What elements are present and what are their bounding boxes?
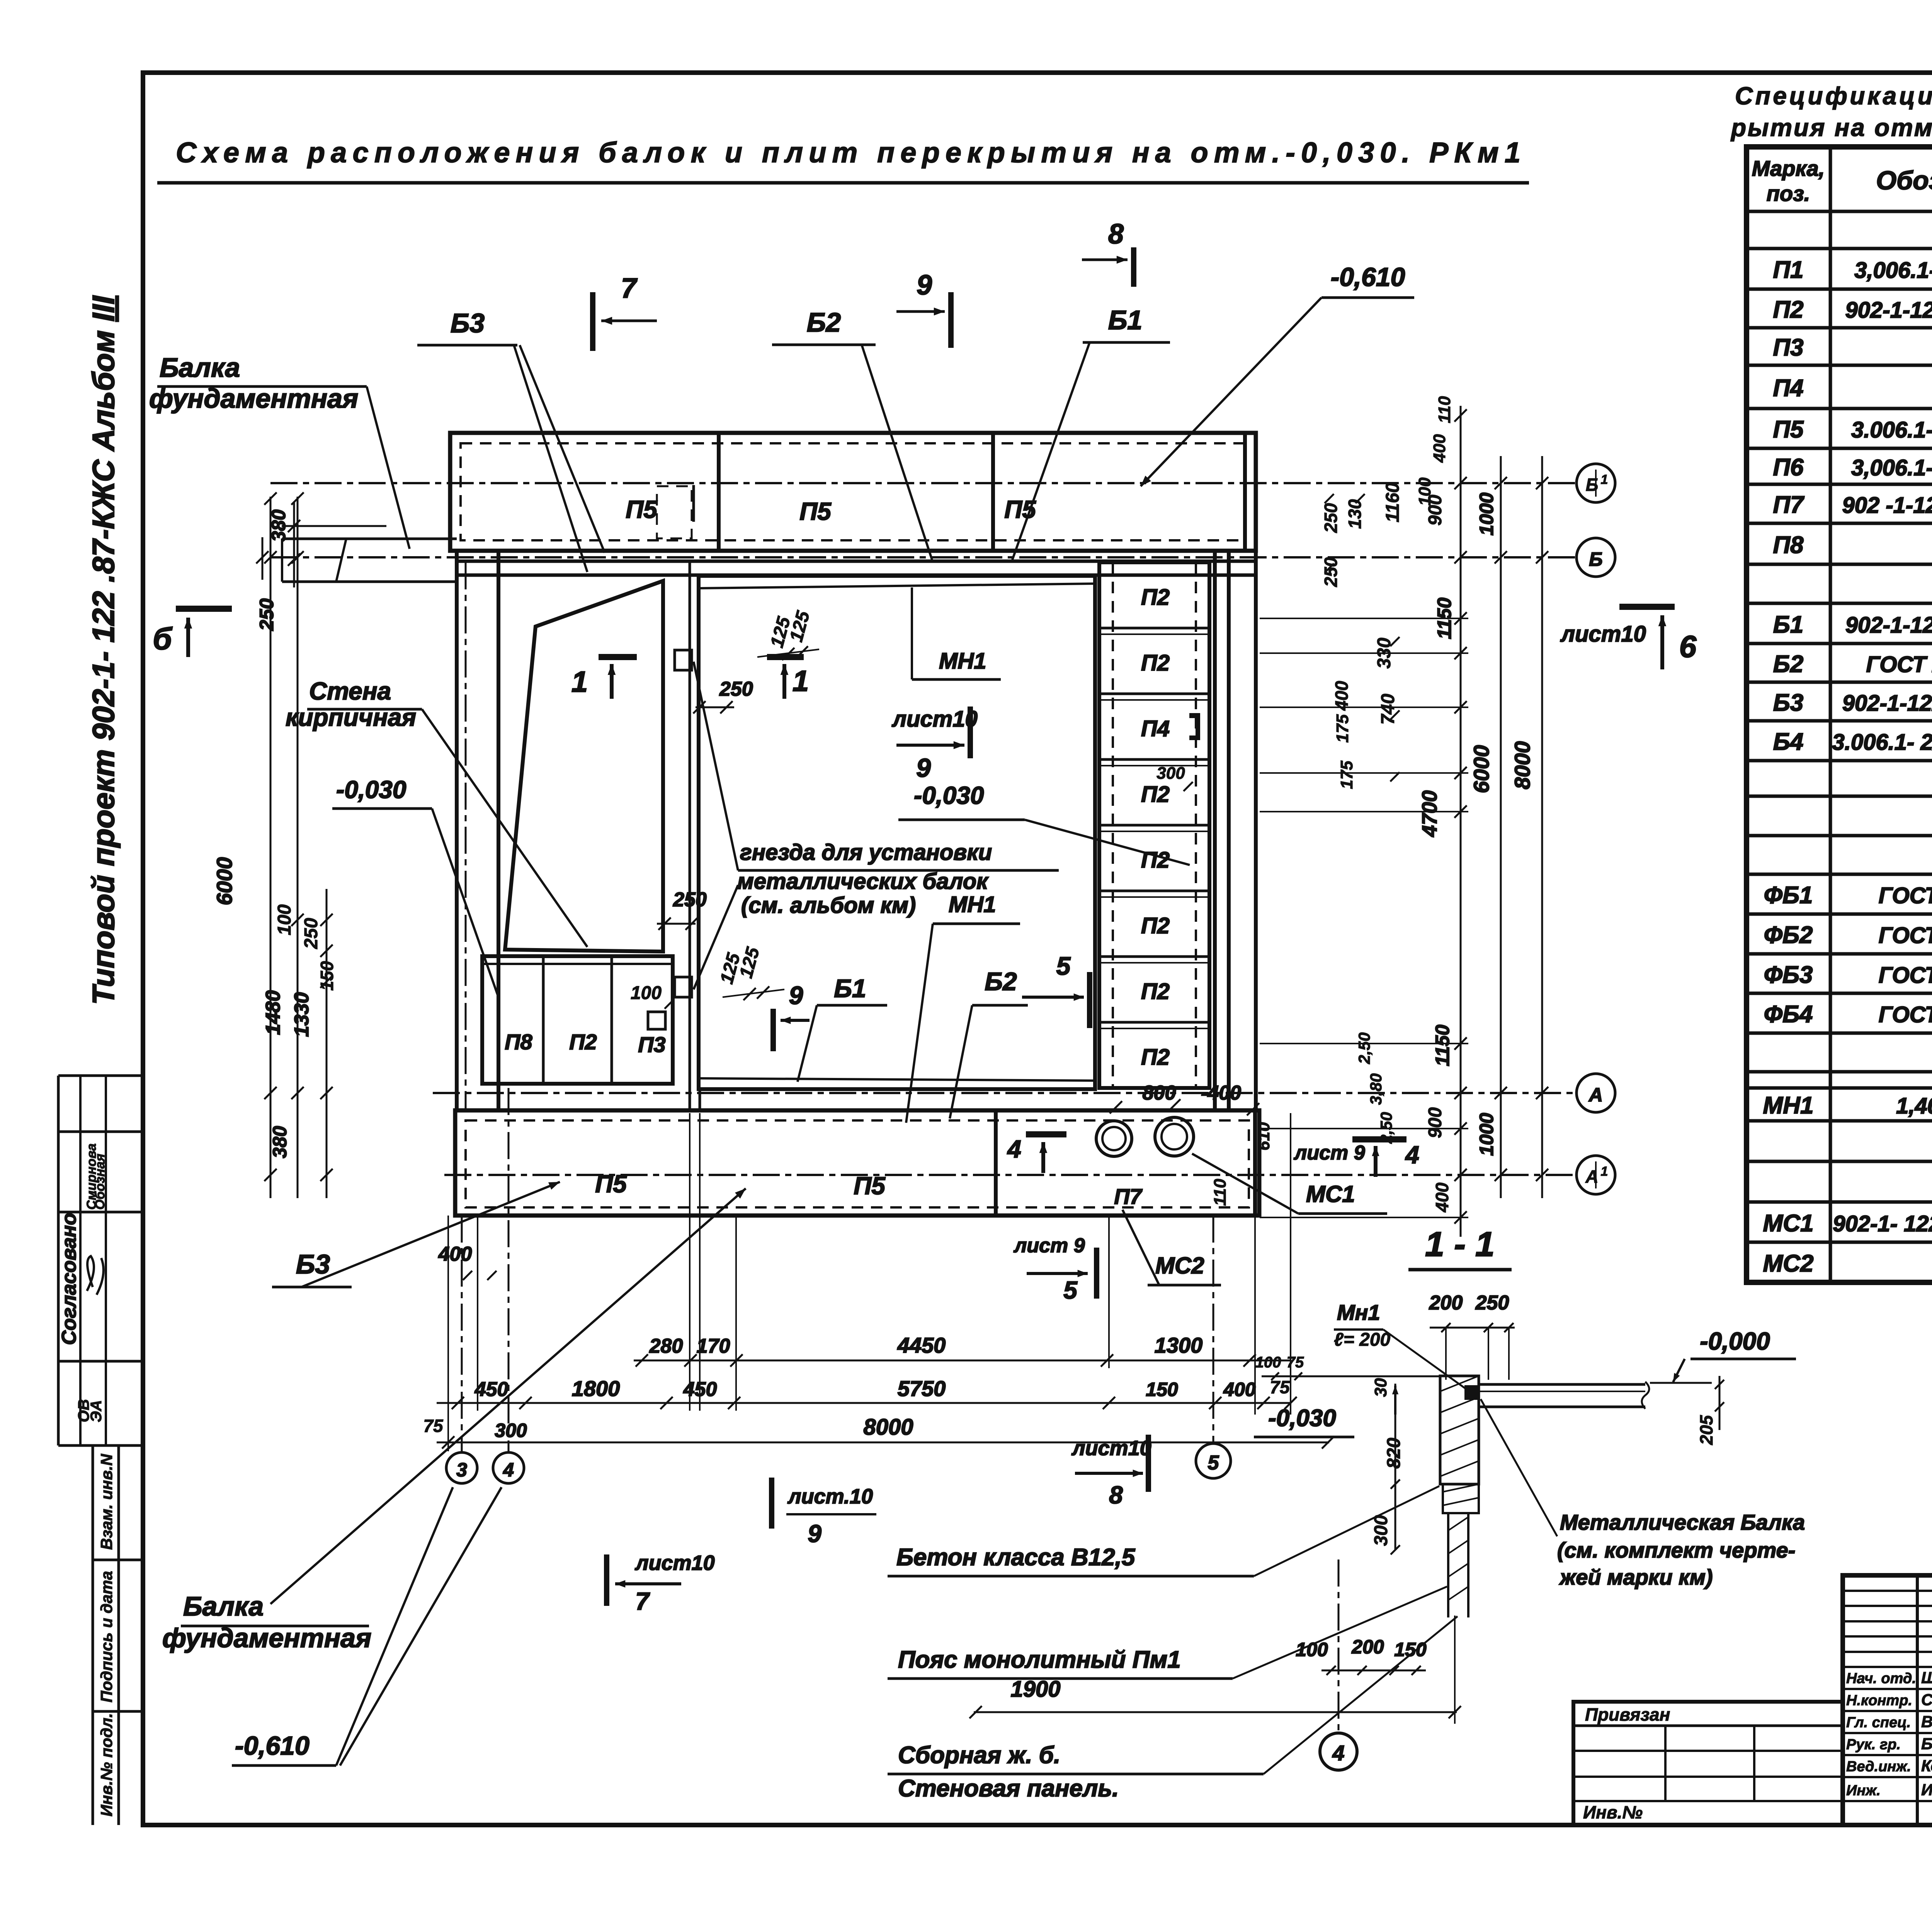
left margin block Согласовано	[58, 1074, 144, 1077]
svg-text:П4: П4	[1141, 716, 1170, 741]
svg-text:П2: П2	[1141, 848, 1170, 873]
svg-text:-0,000: -0,000	[1700, 1327, 1770, 1355]
small cross ticks right upper	[1325, 494, 1334, 503]
svg-text:-0,030: -0,030	[336, 776, 406, 804]
svg-text:ФБ3: ФБ3	[1764, 962, 1813, 988]
svg-text:П5: П5	[799, 497, 832, 525]
svg-text:5: 5	[1056, 952, 1071, 980]
svg-text:250: 250	[673, 889, 707, 911]
МС pipe circles	[1096, 1121, 1132, 1156]
svg-text:380: 380	[269, 1126, 291, 1158]
svg-text:Металлическая Балка: Металлическая Балка	[1560, 1510, 1805, 1534]
dim row A 280 170 4450 1300	[634, 1360, 1291, 1362]
axis 3 dash-dot through plan	[465, 562, 467, 1109]
svg-text:175: 175	[1333, 714, 1352, 743]
svg-text:1: 1	[1601, 1164, 1608, 1179]
svg-text:1150: 1150	[1434, 598, 1455, 639]
svg-text:170: 170	[697, 1335, 730, 1357]
svg-text:Бетон класса В12,5: Бетон класса В12,5	[896, 1544, 1136, 1571]
П5 bottom band inner dashed	[466, 1120, 1249, 1207]
svg-text:205: 205	[1696, 1415, 1716, 1445]
svg-text:П2: П2	[1141, 979, 1170, 1004]
svg-text:4: 4	[1007, 1135, 1021, 1163]
axis circle 3	[446, 1452, 477, 1483]
svg-text:1330: 1330	[291, 992, 313, 1037]
svg-text:4: 4	[503, 1459, 514, 1481]
svg-text:МС1: МС1	[1306, 1181, 1355, 1207]
svg-text:8000: 8000	[863, 1415, 913, 1440]
svg-text:фундаментная: фундаментная	[149, 383, 358, 414]
svg-text:300: 300	[495, 1420, 527, 1441]
svg-text:380: 380	[268, 509, 289, 542]
svg-text:МН1: МН1	[949, 892, 996, 917]
svg-text:гнезда для установки: гнезда для установки	[740, 840, 992, 865]
svg-text:Б1: Б1	[834, 974, 866, 1003]
svg-text:1900: 1900	[1010, 1677, 1060, 1702]
svg-text:Подпись и дата: Подпись и дата	[97, 1571, 116, 1702]
svg-text:2,50: 2,50	[1355, 1032, 1373, 1064]
svg-text:Обозначение: Обозначение	[1876, 166, 1932, 195]
svg-text:5: 5	[1063, 1276, 1078, 1304]
svg-text:лист10: лист10	[1071, 1437, 1151, 1460]
svg-text:Типовой проект 902-1- 122: Типовой проект 902-1- 122 .87-КЖС Альбом…	[86, 295, 121, 1005]
svg-text:Инж.: Инж.	[1846, 1783, 1881, 1799]
bottom band divider	[994, 1110, 998, 1216]
svg-text:поз.: поз.	[1767, 181, 1810, 206]
left vertical dim lines	[270, 497, 272, 1198]
svg-text:400: 400	[1430, 434, 1449, 463]
svg-text:лист 9: лист 9	[1293, 1142, 1365, 1164]
svg-text:5: 5	[1208, 1452, 1219, 1474]
svg-text:75: 75	[423, 1416, 444, 1436]
svg-text:250: 250	[301, 918, 321, 949]
axis 4 dash line in detail	[1338, 1559, 1340, 1731]
svg-text:лист10: лист10	[634, 1551, 715, 1575]
svg-text:ЭА: ЭА	[88, 1400, 105, 1422]
svg-text:жей марки км): жей марки км)	[1559, 1565, 1713, 1589]
svg-text:740: 740	[1378, 694, 1398, 725]
svg-text:П3: П3	[638, 1032, 665, 1057]
svg-text:900: 900	[1425, 1107, 1446, 1138]
svg-text:(см. комплект черте-: (см. комплект черте-	[1557, 1538, 1795, 1562]
svg-text:Балка: Балка	[160, 352, 240, 383]
svg-text:ФБ1: ФБ1	[1764, 882, 1813, 909]
svg-text:3,80: 3,80	[1367, 1073, 1385, 1105]
svg-text:Вед.инж.: Вед.инж.	[1846, 1759, 1911, 1775]
axis circle А/1	[1577, 1156, 1615, 1194]
svg-text:7: 7	[635, 1587, 650, 1615]
svg-text:3.006.1- 2/82.2 - 2- 09 СБ: 3.006.1- 2/82.2 - 2- 09 СБ	[1832, 730, 1932, 755]
svg-text:-0,030: -0,030	[914, 781, 984, 809]
svg-text:Б2: Б2	[985, 967, 1017, 996]
svg-text:9: 9	[789, 981, 803, 1010]
svg-text:100: 100	[631, 983, 662, 1003]
svg-text:Привязан: Привязан	[1585, 1704, 1670, 1725]
room bottom beam double line	[699, 1078, 1095, 1081]
section mark 8 top	[1131, 247, 1136, 287]
svg-text:75: 75	[1270, 1377, 1290, 1397]
svg-text:8: 8	[1109, 1481, 1123, 1509]
axis circle 4	[493, 1452, 524, 1483]
svg-text:Б1: Б1	[1773, 611, 1803, 638]
svg-text:П7: П7	[1773, 492, 1804, 518]
svg-text:150: 150	[1146, 1379, 1178, 1400]
svg-text:280: 280	[649, 1335, 683, 1357]
svg-text:рытия на отм. – 0,030 РКм1 и: рытия на отм. – 0,030 РКм1 и на отм. 1,5…	[1730, 114, 1932, 141]
svg-text:330: 330	[1374, 638, 1395, 669]
level line left of wall	[1262, 1376, 1440, 1377]
svg-text:110: 110	[1211, 1178, 1230, 1206]
svg-text:ГОСТ 13579 -78: ГОСТ 13579 -78	[1879, 963, 1932, 988]
svg-text:150: 150	[317, 961, 337, 991]
svg-text:902-1-122. 87- КЖИ-Б3: 902-1-122. 87- КЖИ-Б3	[1842, 691, 1932, 716]
svg-text:П2: П2	[1141, 782, 1170, 807]
svg-text:-0,610: -0,610	[1331, 262, 1405, 292]
svg-text:900: 900	[1425, 495, 1446, 526]
svg-text:лист.10: лист.10	[787, 1485, 873, 1508]
svg-text:П2: П2	[569, 1030, 597, 1054]
svg-text:300: 300	[1371, 1515, 1391, 1546]
П5 top band inner dashed	[461, 443, 1245, 540]
svg-text:1150: 1150	[1432, 1025, 1453, 1066]
beam axis line Б/1 horizontal	[270, 482, 1576, 484]
svg-text:П5: П5	[1773, 416, 1804, 443]
svg-text:3,006.1- 2/82.1- 2- 1.0: 3,006.1- 2/82.1- 2- 1.0	[1851, 455, 1932, 480]
svg-text:Сборная ж. б.: Сборная ж. б.	[898, 1742, 1060, 1769]
svg-text:ФБ2: ФБ2	[1764, 922, 1813, 948]
svg-text:3.006.1- 2/82.1- 2- 2,0: 3.006.1- 2/82.1- 2- 2,0	[1851, 417, 1932, 443]
axis line А horizontal	[433, 1092, 1576, 1094]
svg-text:6: 6	[1679, 629, 1697, 664]
svg-text:П2: П2	[1141, 1045, 1170, 1070]
axis circle Б	[1577, 538, 1615, 577]
svg-text:лист10: лист10	[891, 707, 978, 732]
svg-text:250: 250	[1321, 503, 1341, 533]
svg-text:Б3: Б3	[1773, 690, 1803, 716]
svg-text:4: 4	[1332, 1741, 1344, 1765]
section mark б left	[176, 606, 232, 612]
band right outer continuation	[1254, 551, 1258, 1110]
svg-text:902 -1-122. 87-КЖИ-П7: 902 -1-122. 87-КЖИ-П7	[1842, 493, 1932, 518]
svg-text:400: 400	[1223, 1379, 1256, 1400]
svg-text:ГОСТ 13579 -78: ГОСТ 13579 -78	[1879, 1002, 1932, 1027]
svg-text:8000: 8000	[1510, 741, 1534, 790]
svg-text:4700: 4700	[1418, 790, 1441, 837]
right dim extension lines	[1260, 618, 1468, 619]
svg-text:Власенко: Власенко	[1921, 1713, 1932, 1731]
machine room rectangle	[699, 576, 1095, 1089]
section mark 1 left with flag	[599, 654, 637, 660]
лист10 9 mark bottom left	[769, 1478, 774, 1529]
svg-text:МН1: МН1	[939, 649, 986, 674]
svg-text:П5: П5	[595, 1170, 627, 1198]
svg-text:П8: П8	[1773, 532, 1804, 558]
лист10 7 mark bottom left	[604, 1554, 609, 1606]
svg-text:100: 100	[274, 904, 295, 935]
svg-text:ГОСТ 24893.0 - 81: ГОСТ 24893.0 - 81	[1866, 652, 1932, 677]
svg-text:200: 200	[1429, 1292, 1463, 1314]
svg-text:Н.контр.: Н.контр.	[1846, 1692, 1912, 1709]
svg-text:-400: -400	[1201, 1082, 1241, 1104]
svg-text:лист10: лист10	[1560, 621, 1646, 647]
svg-text:110: 110	[1435, 396, 1454, 423]
svg-text:Инв.№: Инв.№	[1583, 1802, 1643, 1822]
П8 П2 П3 box lower left	[482, 956, 673, 1084]
svg-text:6000: 6000	[1469, 745, 1493, 793]
svg-text:Нач. отд.: Нач. отд.	[1846, 1670, 1916, 1687]
svg-text:1 - 1: 1 - 1	[1425, 1225, 1495, 1264]
svg-text:820: 820	[1384, 1438, 1404, 1469]
svg-text:П3: П3	[1773, 334, 1803, 361]
svg-text:1: 1	[1601, 472, 1608, 487]
svg-text:902-1-122.87- КЖИ-Б1: 902-1-122.87- КЖИ-Б1	[1845, 613, 1932, 638]
svg-text:1000: 1000	[1476, 1113, 1497, 1156]
svg-text:Марка,: Марка,	[1752, 156, 1825, 180]
svg-text:П7: П7	[1114, 1184, 1143, 1209]
svg-text:450: 450	[683, 1378, 717, 1401]
left margin strip Взам.инв.N / Подпись и дата / Инв.N подл.	[93, 1444, 144, 1447]
svg-text:Рук. гр.: Рук. гр.	[1846, 1737, 1901, 1753]
svg-text:П2: П2	[1141, 650, 1170, 676]
svg-text:130: 130	[1345, 499, 1365, 529]
section mark 1 right with flag	[767, 654, 804, 660]
svg-text:Б: Б	[1589, 548, 1602, 570]
svg-text:лист 9: лист 9	[1013, 1234, 1085, 1257]
svg-text:П5: П5	[854, 1172, 886, 1200]
Привязан box	[1573, 1702, 1843, 1825]
section mark 4 in band	[1026, 1131, 1066, 1137]
svg-text:П4: П4	[1773, 375, 1803, 402]
П5 top band outer	[450, 433, 1256, 551]
svg-text:Борисенко: Борисенко	[1921, 1735, 1932, 1753]
dim 300	[1395, 1484, 1396, 1550]
vertical extension lines below plan	[461, 1216, 463, 1451]
svg-text:П5: П5	[1004, 495, 1036, 523]
specification table grid	[1747, 147, 1932, 1282]
svg-text:б: б	[153, 621, 173, 656]
axis circle 4 detail	[1320, 1733, 1357, 1770]
svg-text:3,006.1-2/82.1 - 2-1,0: 3,006.1-2/82.1 - 2-1,0	[1854, 258, 1932, 283]
dim 820	[1395, 1384, 1396, 1484]
svg-text:П2: П2	[1773, 296, 1803, 323]
svg-text:3: 3	[456, 1459, 467, 1481]
svg-text:Стена: Стена	[309, 677, 391, 705]
svg-text:П6: П6	[1773, 454, 1804, 481]
main right wall	[1213, 551, 1217, 1110]
svg-text:Козина: Козина	[1921, 1757, 1932, 1775]
main left wall	[455, 551, 459, 1110]
svg-text:7: 7	[621, 273, 638, 304]
svg-text:Б4: Б4	[1773, 729, 1803, 755]
П2 plate stack right side	[1099, 562, 1209, 1088]
svg-text:250: 250	[1321, 557, 1341, 587]
svg-text:П1: П1	[1773, 257, 1803, 283]
svg-text:75: 75	[1287, 1354, 1304, 1371]
svg-text:(см. альбом км): (см. альбом км)	[741, 893, 916, 918]
лист10 6 mark right	[1619, 604, 1675, 610]
svg-text:фундаментная: фундаментная	[162, 1623, 371, 1653]
П5 bottom band outer	[455, 1110, 1259, 1216]
svg-text:30: 30	[1371, 1378, 1390, 1397]
svg-text:2,50: 2,50	[1377, 1112, 1395, 1144]
svg-text:ГОСТ 13579 -78: ГОСТ 13579 -78	[1879, 923, 1932, 948]
svg-text:Б1: Б1	[1108, 305, 1143, 335]
svg-text:250: 250	[256, 598, 277, 631]
svg-text:1800: 1800	[572, 1376, 620, 1401]
axis circle 5	[1196, 1444, 1231, 1478]
svg-text:Шейко: Шейко	[1921, 1668, 1932, 1687]
svg-text:Иволженко: Иволженко	[1921, 1781, 1932, 1799]
room top beam double line	[699, 584, 1095, 588]
svg-text:кирпичная: кирпичная	[286, 703, 416, 731]
svg-text:300: 300	[1156, 764, 1185, 783]
floor slab in section	[1479, 1383, 1645, 1386]
dim row C 8000	[437, 1442, 1329, 1444]
svg-text:1: 1	[793, 665, 809, 698]
svg-text:800: 800	[1143, 1082, 1176, 1104]
brick wall parallelogram	[505, 581, 663, 952]
hatched brick wall section	[1440, 1376, 1479, 1484]
svg-text:Б2: Б2	[807, 307, 841, 337]
svg-text:Б3: Б3	[451, 308, 485, 338]
svg-text:9: 9	[808, 1520, 821, 1548]
wall line below top band	[456, 560, 1256, 563]
svg-text:металлических балок: металлических балок	[737, 869, 989, 894]
svg-text:150: 150	[1394, 1639, 1427, 1660]
svg-text:П2: П2	[1141, 585, 1170, 610]
svg-text:9: 9	[916, 753, 931, 783]
svg-text:Спецификация к схемам располож: Спецификация к схемам расположения балок…	[1735, 82, 1932, 110]
small dashed box in first П5 cell	[657, 486, 692, 538]
embedded item МН1 black square	[1464, 1385, 1480, 1400]
svg-text:П8: П8	[505, 1030, 532, 1054]
svg-text:100: 100	[1255, 1354, 1281, 1371]
svg-text:Балка: Балка	[183, 1591, 264, 1621]
svg-text:Мн1: Мн1	[1337, 1300, 1380, 1325]
title block bottom right	[1843, 1575, 1932, 1825]
svg-text:1,400-15. 81.: 1,400-15. 81.	[1896, 1093, 1932, 1119]
svg-text:1160: 1160	[1383, 482, 1403, 523]
axis line А/1 horizontal	[444, 1174, 1576, 1176]
svg-text:902-1-122. 87-КЖИ-П2: 902-1-122. 87-КЖИ-П2	[1845, 298, 1932, 323]
svg-text:Б2: Б2	[1773, 651, 1803, 678]
wall panel below	[1447, 1513, 1449, 1617]
svg-text:8: 8	[1108, 219, 1124, 250]
svg-text:610: 610	[1254, 1122, 1273, 1151]
svg-text:400: 400	[1332, 681, 1352, 711]
axis circle А	[1577, 1074, 1615, 1112]
svg-text:400: 400	[1432, 1182, 1452, 1212]
П5 band dividers	[717, 433, 721, 551]
svg-text:Сокольская: Сокольская	[1921, 1691, 1932, 1709]
svg-text:Обозная: Обозная	[93, 1154, 107, 1210]
svg-text:250: 250	[719, 678, 753, 700]
svg-text:П5: П5	[626, 495, 658, 523]
svg-text:Пояс монолитный Пм1: Пояс монолитный Пм1	[898, 1646, 1181, 1673]
svg-text:А: А	[1588, 1084, 1603, 1106]
svg-text:9: 9	[917, 270, 932, 301]
svg-text:ℓ= 200: ℓ= 200	[1334, 1330, 1391, 1350]
svg-text:МС1: МС1	[1763, 1210, 1814, 1237]
right vertical dim lines	[1460, 406, 1462, 1237]
svg-text:Гл. спец.: Гл. спец.	[1846, 1714, 1911, 1731]
svg-text:Стеновая панель.: Стеновая панель.	[898, 1775, 1119, 1802]
П4 bracket symbol	[1189, 713, 1200, 740]
svg-text:4450: 4450	[897, 1333, 946, 1357]
svg-text:Инв.№ подл.: Инв.№ подл.	[97, 1713, 116, 1817]
svg-text:МН1: МН1	[1763, 1092, 1814, 1119]
wall sockets for beams	[675, 650, 692, 670]
svg-text:ГОСТ 13579 -78: ГОСТ 13579 -78	[1879, 883, 1932, 908]
svg-text:-0,610: -0,610	[235, 1731, 310, 1760]
svg-text:П2: П2	[1141, 913, 1170, 938]
svg-text:Б3: Б3	[296, 1249, 330, 1279]
svg-text:1300: 1300	[1155, 1333, 1203, 1357]
dim row B 450 1800 450 5750 150 400 75	[437, 1402, 1291, 1404]
dim 205	[1719, 1376, 1721, 1430]
svg-text:МС2: МС2	[1763, 1250, 1814, 1277]
svg-text:6000: 6000	[212, 857, 236, 906]
svg-text:902-1- 122. 87-КЖИ-МС1: 902-1- 122. 87-КЖИ-МС1	[1833, 1211, 1932, 1236]
svg-text:1: 1	[571, 666, 588, 698]
axis circle Б/1	[1577, 464, 1615, 502]
svg-text:5750: 5750	[898, 1376, 946, 1401]
svg-text:ФБ4: ФБ4	[1764, 1001, 1813, 1028]
section mark 9 top	[948, 292, 954, 348]
svg-text:МС2: МС2	[1155, 1253, 1204, 1279]
svg-text:175: 175	[1337, 761, 1356, 789]
svg-text:Согласовано: Согласовано	[58, 1213, 80, 1345]
svg-text:Взам. инв.N: Взам. инв.N	[97, 1453, 116, 1550]
beam axis line Б horizontal	[270, 556, 1576, 558]
section mark 7 top	[590, 292, 595, 351]
svg-text:-0,030: -0,030	[1268, 1405, 1336, 1432]
section mark 9 bottom flag	[770, 1009, 776, 1051]
svg-text:4: 4	[1405, 1141, 1419, 1169]
monolithic belt Пм1	[1443, 1484, 1479, 1513]
svg-text:400: 400	[438, 1243, 472, 1265]
svg-text:1480: 1480	[262, 990, 284, 1035]
svg-text:450: 450	[474, 1378, 509, 1401]
svg-text:250: 250	[1475, 1292, 1509, 1314]
svg-text:200: 200	[1351, 1636, 1384, 1658]
small opening square near П3	[648, 1012, 665, 1029]
foundation beam extension left	[282, 538, 457, 540]
svg-text:1000: 1000	[1476, 492, 1497, 535]
